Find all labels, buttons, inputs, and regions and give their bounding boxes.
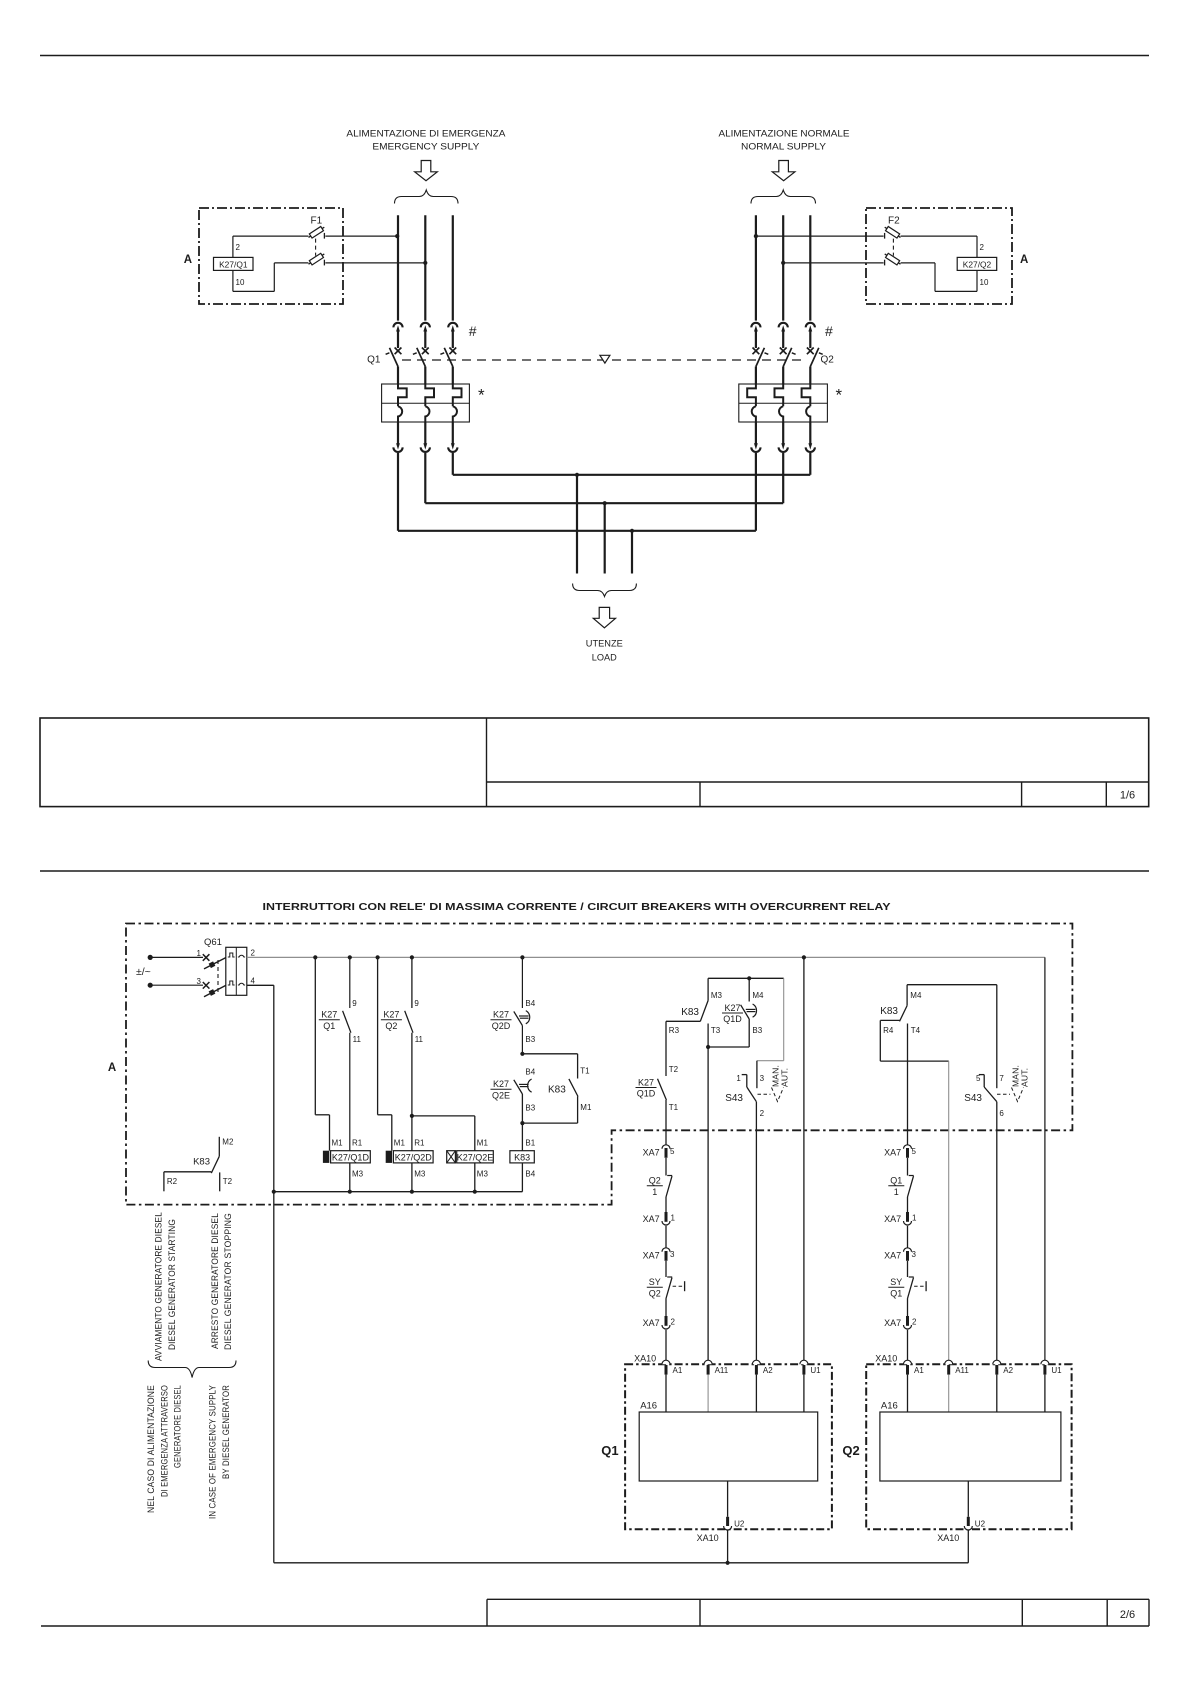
- svg-text:6: 6: [999, 1109, 1004, 1118]
- svg-text:R2: R2: [167, 1177, 178, 1186]
- svg-text:1: 1: [652, 1187, 657, 1197]
- svg-text:K27: K27: [493, 1010, 509, 1020]
- svg-text:EMERGENCY SUPPLY: EMERGENCY SUPPLY: [372, 141, 479, 151]
- svg-text:2: 2: [251, 949, 256, 958]
- svg-text:10: 10: [236, 278, 245, 287]
- svg-text:F1: F1: [311, 216, 323, 227]
- svg-text:LOAD: LOAD: [592, 652, 617, 663]
- svg-text:XA7: XA7: [643, 1214, 660, 1224]
- svg-text:4: 4: [251, 977, 256, 986]
- svg-text:T1: T1: [580, 1067, 590, 1076]
- svg-text:ALIMENTAZIONE NORMALE: ALIMENTAZIONE NORMALE: [719, 128, 850, 138]
- svg-text:ALIMENTAZIONE DI EMERGENZA: ALIMENTAZIONE DI EMERGENZA: [346, 128, 505, 138]
- svg-text:R4: R4: [883, 1026, 894, 1035]
- svg-text:NORMAL SUPPLY: NORMAL SUPPLY: [741, 141, 826, 151]
- svg-text:#: #: [469, 323, 477, 339]
- svg-text:7: 7: [999, 1074, 1004, 1083]
- svg-text:DIESEL GENERATOR STOPPING: DIESEL GENERATOR STOPPING: [223, 1213, 233, 1350]
- svg-text:K83: K83: [514, 1152, 530, 1162]
- svg-text:*: *: [836, 386, 843, 405]
- svg-text:T3: T3: [711, 1026, 721, 1035]
- svg-text:UTENZE: UTENZE: [586, 639, 623, 650]
- svg-text:*: *: [478, 386, 485, 405]
- svg-text:K27/Q2D: K27/Q2D: [395, 1152, 433, 1162]
- svg-text:A: A: [108, 1062, 116, 1074]
- svg-text:B1: B1: [525, 1139, 535, 1148]
- svg-text:XA7: XA7: [884, 1318, 901, 1328]
- svg-text:B3: B3: [525, 1035, 535, 1044]
- svg-text:R1: R1: [352, 1139, 363, 1148]
- svg-text:10: 10: [980, 278, 989, 287]
- svg-text:AUT.: AUT.: [780, 1068, 790, 1087]
- svg-text:1: 1: [671, 1214, 676, 1223]
- svg-text:K27: K27: [383, 1010, 399, 1020]
- svg-text:M1: M1: [580, 1103, 592, 1112]
- svg-text:U1: U1: [810, 1366, 821, 1375]
- svg-text:K27/Q1D: K27/Q1D: [332, 1152, 370, 1162]
- svg-text:A: A: [1020, 254, 1028, 266]
- svg-text:R3: R3: [669, 1026, 680, 1035]
- svg-text:IN CASE OF EMERGENCY SUPPL: IN CASE OF EMERGENCY SUPPLY: [208, 1385, 218, 1519]
- svg-text:M4: M4: [910, 991, 922, 1000]
- svg-text:AVVIAMENTO GENERATORE DIESEL: AVVIAMENTO GENERATORE DIESEL: [154, 1212, 164, 1361]
- svg-text:K83: K83: [548, 1085, 566, 1096]
- svg-text:M1: M1: [394, 1139, 406, 1148]
- svg-text:XA7: XA7: [643, 1318, 660, 1328]
- svg-text:K27: K27: [321, 1010, 337, 1020]
- svg-text:2: 2: [671, 1318, 676, 1327]
- svg-text:Q2D: Q2D: [492, 1021, 511, 1031]
- svg-text:3: 3: [760, 1074, 765, 1083]
- svg-text:3: 3: [197, 977, 202, 986]
- svg-text:XA7: XA7: [884, 1251, 901, 1261]
- svg-text:5: 5: [670, 1147, 675, 1156]
- svg-text:XA7: XA7: [643, 1251, 660, 1261]
- svg-text:Q2: Q2: [649, 1288, 661, 1298]
- svg-text:U2: U2: [734, 1520, 745, 1529]
- svg-text:A: A: [184, 254, 192, 266]
- svg-text:XA10: XA10: [634, 1354, 656, 1364]
- svg-text:Q1: Q1: [601, 1443, 618, 1458]
- svg-text:B3: B3: [752, 1026, 762, 1035]
- svg-text:K27/Q1: K27/Q1: [219, 260, 248, 270]
- svg-text:T1: T1: [669, 1103, 679, 1112]
- svg-text:K27/Q2E: K27/Q2E: [457, 1152, 494, 1162]
- svg-text:Q2: Q2: [649, 1176, 661, 1186]
- svg-text:#: #: [825, 323, 833, 339]
- svg-text:AUT.: AUT.: [1020, 1068, 1030, 1087]
- svg-text:M2: M2: [222, 1138, 234, 1147]
- svg-text:U1: U1: [1051, 1366, 1062, 1375]
- svg-text:2: 2: [236, 243, 241, 252]
- svg-text:M4: M4: [752, 991, 764, 1000]
- svg-text:GENERATORE DIESEL: GENERATORE DIESEL: [173, 1385, 183, 1468]
- svg-text:DI EMERGENZA ATTRAVERSO: DI EMERGENZA ATTRAVERSO: [160, 1385, 170, 1497]
- svg-text:5: 5: [976, 1074, 981, 1083]
- svg-text:A1: A1: [914, 1366, 924, 1375]
- svg-text:Q1: Q1: [890, 1176, 902, 1186]
- svg-text:XA10: XA10: [697, 1533, 719, 1543]
- svg-text:2: 2: [912, 1318, 917, 1327]
- svg-text:SY: SY: [649, 1277, 661, 1287]
- svg-text:1: 1: [912, 1214, 917, 1223]
- svg-text:U2: U2: [975, 1520, 986, 1529]
- svg-text:A11: A11: [715, 1366, 729, 1375]
- svg-text:±/~: ±/~: [136, 966, 151, 978]
- svg-text:A16: A16: [640, 1401, 657, 1412]
- svg-text:NEL CASO DI ALIMENTAZIONE: NEL CASO DI ALIMENTAZIONE: [146, 1385, 156, 1513]
- svg-text:XA7: XA7: [884, 1148, 901, 1158]
- svg-text:3: 3: [912, 1250, 917, 1259]
- svg-text:M3: M3: [477, 1170, 489, 1179]
- svg-text:2/6: 2/6: [1120, 1609, 1135, 1621]
- svg-text:M3: M3: [352, 1170, 364, 1179]
- svg-text:S43: S43: [725, 1093, 743, 1104]
- svg-text:Q1D: Q1D: [723, 1014, 742, 1024]
- svg-text:Q2E: Q2E: [492, 1090, 510, 1100]
- svg-text:5: 5: [912, 1147, 917, 1156]
- svg-text:K27: K27: [724, 1003, 740, 1013]
- svg-text:1: 1: [736, 1074, 741, 1083]
- svg-text:BY DIESEL GENERATOR: BY DIESEL GENERATOR: [221, 1385, 231, 1479]
- svg-text:1: 1: [197, 949, 202, 958]
- svg-text:R1: R1: [414, 1139, 425, 1148]
- svg-text:SY: SY: [890, 1277, 902, 1287]
- svg-text:DIESEL GENERATOR STARTING: DIESEL GENERATOR STARTING: [167, 1219, 177, 1350]
- svg-text:Q2: Q2: [842, 1443, 859, 1458]
- svg-text:T2: T2: [669, 1065, 679, 1074]
- svg-text:Q2: Q2: [385, 1021, 397, 1031]
- svg-text:K83: K83: [880, 1006, 898, 1017]
- svg-text:K27: K27: [493, 1079, 509, 1089]
- svg-text:A2: A2: [763, 1366, 773, 1375]
- svg-text:INTERRUTTORI CON RELE' DI: INTERRUTTORI CON RELE' DI MASSIMA CORREN…: [263, 902, 891, 913]
- svg-text:M3: M3: [414, 1170, 426, 1179]
- svg-text:1: 1: [894, 1187, 899, 1197]
- svg-text:F2: F2: [888, 216, 900, 227]
- svg-text:Q2: Q2: [821, 355, 835, 366]
- svg-text:M1: M1: [477, 1139, 489, 1148]
- svg-text:Q1: Q1: [367, 355, 381, 366]
- svg-text:3: 3: [670, 1250, 675, 1259]
- svg-text:2: 2: [980, 243, 985, 252]
- svg-text:2: 2: [760, 1109, 765, 1118]
- svg-text:XA7: XA7: [884, 1214, 901, 1224]
- svg-text:Q1D: Q1D: [637, 1089, 656, 1099]
- svg-text:B4: B4: [525, 1068, 535, 1077]
- svg-text:K83: K83: [193, 1157, 210, 1168]
- svg-text:M1: M1: [332, 1139, 344, 1148]
- svg-text:B3: B3: [525, 1104, 535, 1113]
- svg-text:ARRESTO GENERATORE DIESEL: ARRESTO GENERATORE DIESEL: [210, 1213, 220, 1349]
- svg-text:K27: K27: [638, 1077, 654, 1087]
- svg-text:A2: A2: [1003, 1366, 1013, 1375]
- svg-text:T4: T4: [911, 1026, 921, 1035]
- svg-text:B4: B4: [525, 1170, 535, 1179]
- svg-text:T2: T2: [223, 1177, 233, 1186]
- svg-text:11: 11: [415, 1035, 424, 1044]
- svg-text:9: 9: [414, 999, 419, 1008]
- svg-text:XA7: XA7: [643, 1148, 660, 1158]
- svg-text:B4: B4: [525, 999, 535, 1008]
- svg-text:Q1: Q1: [890, 1288, 902, 1298]
- svg-text:M3: M3: [711, 991, 723, 1000]
- svg-text:S43: S43: [964, 1093, 982, 1104]
- svg-text:A1: A1: [673, 1366, 683, 1375]
- svg-text:1/6: 1/6: [1120, 790, 1135, 802]
- svg-text:11: 11: [353, 1035, 362, 1044]
- svg-text:K83: K83: [681, 1007, 699, 1018]
- svg-text:XA10: XA10: [937, 1533, 959, 1543]
- svg-text:A11: A11: [955, 1366, 969, 1375]
- svg-text:9: 9: [352, 999, 357, 1008]
- svg-text:K27/Q2: K27/Q2: [963, 260, 992, 270]
- svg-text:A16: A16: [881, 1401, 898, 1412]
- svg-text:XA10: XA10: [875, 1354, 897, 1364]
- svg-text:Q1: Q1: [323, 1021, 335, 1031]
- svg-text:Q61: Q61: [204, 937, 222, 948]
